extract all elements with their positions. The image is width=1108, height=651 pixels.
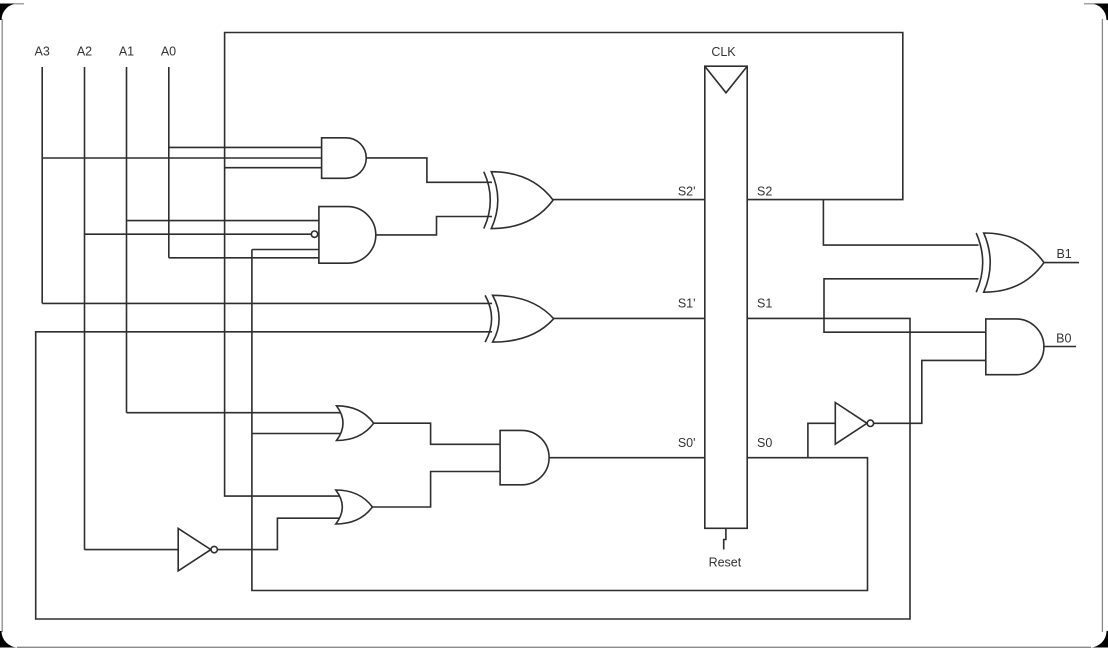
wire A0 to U2 input 4 — [169, 258, 319, 263]
wire A2 to U11 input — [85, 549, 180, 551]
wire S0 branch to U10 input — [808, 423, 837, 457]
wire U7 output S0' to register — [548, 457, 705, 459]
svg-text:B1: B1 — [1056, 247, 1071, 261]
page border left — [1, 19, 3, 632]
wire A3 to U4 input 1 — [42, 302, 492, 304]
wire A1 to U2 input 1 — [127, 220, 322, 222]
register clock edge triangle — [705, 66, 747, 93]
svg-text:A3: A3 — [35, 44, 50, 58]
wire S0 feedback to U2 input 3 — [252, 249, 321, 251]
svg-text:S2: S2 — [757, 184, 772, 198]
page border top-right segment — [1084, 3, 1094, 5]
svg-text:A1: A1 — [119, 44, 134, 58]
svg-text:S1: S1 — [757, 296, 772, 310]
wire S1 branch to U9 input 1 — [824, 318, 988, 332]
xor-gate U3 (S2 logic) — [484, 172, 491, 229]
wire output B1 — [1043, 262, 1080, 264]
and-gate U2 (inverted input) — [319, 207, 376, 264]
or-gate U6 — [336, 490, 373, 524]
wire U1 output to U3 input 1 — [365, 158, 493, 182]
wire input A2 vertical — [84, 67, 86, 550]
wire A2 to U2 inverted input — [85, 233, 312, 235]
page border top-left segment — [14, 3, 24, 5]
corner wedge bottom-right — [1090, 631, 1108, 648]
xor-gate U4 (S1 logic) — [485, 295, 492, 342]
wire U3 output S2' to register — [552, 199, 705, 201]
and-gate U1 — [322, 138, 367, 179]
wire U4 output S1' to register — [552, 317, 705, 319]
svg-text:S0': S0' — [678, 436, 696, 450]
wire S1 branch to U8 input 2 — [824, 279, 979, 319]
and-gate U9 (output B0) — [986, 319, 1044, 375]
wire U11 output to U6 input 2 — [217, 518, 344, 549]
wire reset stub — [724, 528, 726, 549]
inverter U10 — [835, 403, 867, 445]
wire S2 feedback to U1 input 3 — [225, 167, 324, 169]
corner wedge top-right — [1090, 4, 1108, 21]
xor-gate U8 (output B1) — [976, 233, 983, 292]
wire input A1 vertical — [126, 67, 128, 413]
wire A3 to U1 input 2 — [42, 157, 324, 159]
svg-text:A2: A2 — [77, 44, 92, 58]
and-gate U7 (S0 logic) — [500, 430, 549, 484]
wire input A3 vertical — [41, 67, 43, 303]
register REG1 body — [705, 66, 747, 528]
svg-text:Reset: Reset — [709, 555, 742, 569]
wire A1 to U5 input 1 — [127, 412, 345, 414]
wire net S2 loop — [225, 33, 903, 497]
wire output B0 — [1043, 346, 1077, 348]
svg-text:S1': S1' — [678, 296, 696, 310]
wire U6 output to U7 input 2 — [371, 472, 503, 508]
corner wedge top-left — [0, 4, 18, 21]
svg-text:CLK: CLK — [711, 45, 736, 59]
or-gate U5 — [337, 406, 374, 441]
wire net S1 loop — [36, 318, 910, 619]
wire U10 output to U9 input 2 — [874, 360, 988, 423]
svg-text:A0: A0 — [161, 44, 176, 58]
page border bottom — [17, 646, 1091, 648]
svg-text:S2': S2' — [678, 184, 696, 198]
wire S0 branch to U5 input 2 — [252, 433, 344, 435]
wire input A0 vertical — [168, 67, 170, 258]
wire A0 to U1 input 1 — [169, 146, 324, 148]
inverter U11 — [178, 528, 211, 571]
corner wedge bottom-left — [0, 631, 18, 648]
svg-text:B0: B0 — [1056, 332, 1071, 346]
wire net S0 loop — [252, 250, 868, 591]
wire U5 output to U7 input 1 — [372, 423, 502, 444]
page border right — [1101, 19, 1103, 632]
bubble on U2 input — [311, 231, 317, 237]
wire S2 branch to U8 input 1 — [823, 200, 978, 246]
svg-text:S0: S0 — [757, 436, 772, 450]
wire U2 output to U3 input 2 — [374, 217, 492, 235]
